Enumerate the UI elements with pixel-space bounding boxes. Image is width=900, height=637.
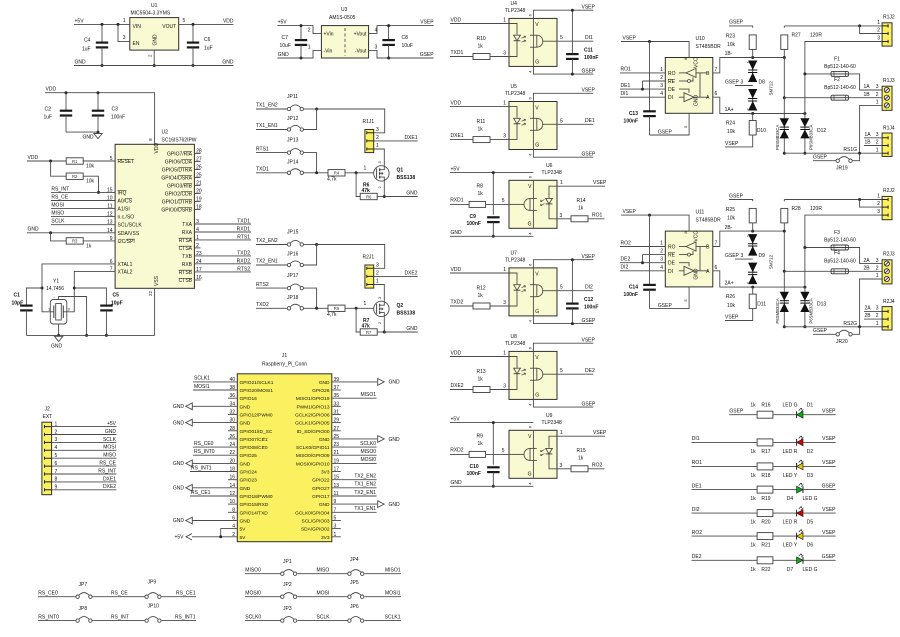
capacitor C3 100nF [97, 93, 99, 111]
svg-text:TX2_EN2: TX2_EN2 [256, 238, 278, 244]
svg-text:GPIO24: GPIO24 [240, 470, 258, 476]
svg-text:GSEP: GSEP [729, 193, 744, 199]
svg-text:DI1: DI1 [585, 35, 593, 41]
wire MISO to U2 n.c./SO [51, 216, 115, 218]
svg-text:R24: R24 [726, 121, 735, 127]
svg-text:P6SMB33CA: P6SMB33CA [809, 125, 814, 150]
svg-text:GSEP: GSEP [582, 68, 597, 74]
wire J2 pin 4 MOSI [45, 449, 52, 452]
svg-text:GND: GND [240, 519, 251, 525]
wire R1J1 pin 2 DXE1 [374, 140, 418, 142]
svg-text:VDD: VDD [451, 101, 462, 107]
svg-text:JP8: JP8 [79, 606, 88, 612]
svg-text:14,7456: 14,7456 [46, 286, 64, 292]
svg-text:GSEP: GSEP [725, 253, 740, 259]
svg-text:D4: D4 [787, 496, 794, 502]
svg-text:3V3: 3V3 [321, 535, 330, 541]
svg-text:10uF: 10uF [402, 43, 413, 49]
wire U1 VOUT to VDD [179, 23, 234, 25]
svg-text:10k: 10k [727, 216, 736, 222]
svg-text:U10: U10 [696, 36, 705, 42]
svg-text:RXB: RXB [182, 262, 193, 268]
svg-text:R7: R7 [366, 330, 372, 335]
svg-text:2A: 2A [865, 306, 872, 312]
svg-text:1uF: 1uF [82, 47, 91, 53]
TVS diode D9 SM712 [752, 234, 754, 256]
svg-text:DI1: DI1 [692, 436, 700, 442]
svg-text:R26: R26 [726, 294, 735, 300]
svg-text:RO2: RO2 [621, 240, 632, 246]
wire VSEP to U11 VCC [621, 215, 689, 231]
svg-text:5: 5 [560, 368, 563, 374]
svg-text:R22: R22 [761, 567, 770, 573]
wire DI2 LED row [692, 512, 758, 514]
wire TX1_EN1 J1 pin 7 [332, 511, 377, 513]
svg-text:5: 5 [502, 198, 505, 204]
svg-text:GND: GND [173, 486, 185, 492]
svg-text:DXE2: DXE2 [103, 484, 116, 490]
capacitor C1 10pF [26, 288, 42, 306]
connector J1 Raspberry_Pi_Conn [237, 374, 331, 542]
svg-text:R12: R12 [477, 286, 486, 292]
svg-text:7: 7 [715, 241, 718, 247]
LED D7 LED G [797, 557, 803, 564]
svg-text:CTSB: CTSB [179, 278, 193, 284]
svg-text:RXD1: RXD1 [450, 197, 464, 203]
resistor R9 1k input [450, 453, 469, 455]
svg-text:GND: GND [173, 404, 185, 410]
wire termination to R2J2 pins 1 2 [784, 199, 882, 201]
svg-text:I2C/SPI: I2C/SPI [118, 239, 135, 245]
wire VDD rail to U2 [45, 93, 155, 145]
svg-text:RO1: RO1 [592, 213, 603, 219]
ground arrow J1 pin 20 [192, 462, 237, 464]
transistor Q2 BSS138 [374, 301, 389, 316]
RS-485 transceiver U11 ST485BDR [665, 231, 713, 287]
svg-text:3: 3 [741, 253, 744, 259]
svg-text:5V: 5V [240, 535, 247, 541]
wire Q1 source to GND [383, 181, 385, 197]
wire crystal case pin 2 to ground [59, 297, 87, 336]
svg-text:SCLK0: SCLK0 [245, 614, 261, 620]
svg-text:RS_INT0: RS_INT0 [194, 449, 215, 455]
svg-text:10pF: 10pF [12, 301, 24, 307]
svg-text:10k: 10k [727, 129, 736, 135]
svg-text:18: 18 [196, 205, 202, 211]
resistor R16 1k [757, 411, 773, 418]
svg-text:GND: GND [694, 268, 700, 280]
svg-text:RO1: RO1 [692, 460, 703, 466]
resistor R1 10k [27, 160, 67, 162]
svg-text:D12: D12 [817, 128, 826, 134]
wire J2 pin 8 DXE1 [45, 480, 52, 483]
resistor R10 1k [450, 56, 473, 58]
svg-text:JP9: JP9 [148, 580, 157, 586]
svg-text:100nF: 100nF [111, 115, 125, 121]
svg-text:3: 3 [55, 437, 58, 443]
svg-text:GPIO2/CDB: GPIO2/CDB [165, 192, 193, 198]
jumpers JP3 JP6 SCLK [245, 620, 281, 622]
svg-text:3V3: 3V3 [321, 470, 330, 476]
wire U1 GND pin 2 [153, 50, 155, 65]
svg-text:GND: GND [406, 190, 418, 196]
wire U11 A pin 6 to 2A+ [713, 271, 805, 287]
wire RS1G net [784, 152, 882, 154]
svg-text:C1: C1 [14, 293, 21, 299]
wire RS2G net [784, 326, 882, 328]
wire J2 pin 5 MISO [45, 457, 52, 460]
svg-text:+Vout: +Vout [354, 32, 368, 38]
svg-text:R28: R28 [792, 206, 801, 212]
svg-text:1: 1 [876, 321, 879, 327]
svg-text:LED Y: LED Y [783, 543, 798, 549]
svg-text:VDD: VDD [154, 143, 160, 154]
svg-text:5: 5 [560, 285, 563, 291]
svg-text:+5V: +5V [451, 167, 461, 173]
wire MISO1 J1 pin 35 [332, 397, 377, 399]
svg-text:1k: 1k [478, 44, 484, 50]
ground symbol crystal [54, 336, 62, 341]
resistor R26 10k pulldown [752, 287, 754, 294]
wire XTAL1 node A [42, 264, 115, 312]
svg-text:GPIO08/CE0: GPIO08/CE0 [240, 445, 268, 451]
wire RS_CE0 to J1 pin 24 [193, 446, 237, 448]
svg-text:RS_INT0: RS_INT0 [38, 614, 59, 620]
wire TX2_EN2 J1 pin 15 [332, 479, 377, 481]
wire C2 C3 ground join [66, 131, 98, 133]
svg-text:SDA/VSS: SDA/VSS [118, 231, 140, 237]
svg-text:GPIO26: GPIO26 [312, 388, 330, 394]
TVS diode D8 SM712 [752, 61, 754, 83]
wire VSEP rail U7 [533, 260, 593, 268]
svg-text:SCLK: SCLK [103, 437, 117, 443]
wire R2J2 pin 3 to 2A+ [805, 215, 882, 287]
svg-text:DE: DE [668, 87, 676, 93]
svg-text:TXD2: TXD2 [237, 251, 250, 257]
wire MOSI to U2 A1/SI [51, 208, 115, 210]
svg-text:2: 2 [660, 249, 663, 255]
svg-text:1uF: 1uF [44, 115, 53, 121]
svg-text:22: 22 [148, 290, 153, 296]
svg-text:1k: 1k [86, 243, 92, 249]
fuse F2 Bp512-140-60 [783, 58, 785, 98]
svg-text:Y1: Y1 [53, 279, 59, 285]
svg-text:VSEP: VSEP [593, 430, 607, 436]
wire DI1 to U10 DI pin 4 [620, 96, 665, 98]
svg-text:6: 6 [715, 91, 718, 97]
svg-text:TLP2348: TLP2348 [505, 341, 526, 347]
LED D3 LED Y [797, 463, 803, 470]
svg-text:GPIO18/PWM0: GPIO18/PWM0 [240, 494, 273, 500]
svg-text:3: 3 [741, 80, 744, 86]
svg-text:RXD1: RXD1 [237, 227, 251, 233]
U2 UART output net wires [194, 223, 251, 225]
svg-text:1k: 1k [750, 567, 756, 573]
svg-text:DI: DI [668, 95, 673, 101]
svg-text:GPIO7/RIA: GPIO7/RIA [167, 152, 193, 158]
svg-text:DE2: DE2 [692, 554, 702, 560]
wire GND to U3 -Vin [277, 50, 321, 58]
svg-text:100nF: 100nF [624, 292, 638, 298]
svg-text:1A: 1A [865, 132, 872, 138]
ground arrow J1 pin 30 [192, 422, 237, 424]
svg-text:MOSI0: MOSI0 [245, 591, 261, 597]
jumper JP13 RTS1 [256, 152, 287, 154]
svg-text:Bp512-140-60: Bp512-140-60 [824, 85, 856, 91]
svg-text:GPIO17: GPIO17 [312, 494, 330, 500]
svg-text:RTS1: RTS1 [256, 146, 269, 152]
capacitor C4 1uF [101, 24, 103, 42]
stub J1 pin 36 [228, 397, 237, 399]
optocoupler U8 TLP2348 [509, 351, 557, 399]
svg-text:CTSA: CTSA [179, 246, 193, 252]
svg-text:GND: GND [240, 486, 251, 492]
svg-text:4,7k: 4,7k [327, 176, 337, 182]
svg-text:Raspberry_Pi_Conn: Raspberry_Pi_Conn [262, 362, 307, 368]
svg-text:GPIO15/RXD: GPIO15/RXD [240, 502, 269, 508]
svg-text:R16: R16 [761, 402, 770, 408]
ground symbol for C2 C3 [94, 134, 102, 139]
svg-text:TLP2348: TLP2348 [505, 257, 526, 263]
svg-text:RS_CE1: RS_CE1 [191, 490, 211, 496]
svg-text:4: 4 [55, 445, 58, 451]
svg-text:R13: R13 [477, 369, 486, 375]
wire U3 -Vout to GSEP [369, 50, 434, 58]
wire R2J3 pin 1 to RS2G [860, 279, 883, 327]
wire output DE2 [557, 373, 593, 375]
svg-text:2: 2 [55, 429, 58, 435]
svg-text:C8: C8 [402, 35, 409, 41]
svg-text:C6: C6 [204, 37, 211, 43]
svg-text:DXE2: DXE2 [404, 270, 417, 276]
connector J2 EXT [42, 422, 52, 495]
svg-text:2B: 2B [865, 313, 872, 319]
svg-text:DXE2: DXE2 [451, 383, 464, 389]
svg-text:120R: 120R [810, 33, 822, 39]
wire GSEP rail U8 [533, 399, 593, 407]
svg-text:VSEP: VSEP [822, 460, 836, 466]
svg-text:GSEP: GSEP [582, 151, 597, 157]
svg-text:MISO: MISO [317, 568, 330, 574]
svg-text:4: 4 [375, 28, 378, 34]
jumper JP15 TX2_EN2 [256, 244, 287, 246]
stub J1 pin 29 [332, 422, 341, 424]
svg-text:D13: D13 [817, 302, 826, 308]
svg-text:RS_CE0: RS_CE0 [194, 441, 214, 447]
stub J1 pin 17 [332, 471, 341, 473]
stub 2A R2J4 pin 3 [864, 310, 882, 312]
svg-text:R2J4: R2J4 [883, 299, 895, 305]
svg-text:SM712: SM712 [769, 81, 774, 96]
svg-text:2: 2 [876, 313, 879, 319]
svg-text:DE1: DE1 [621, 83, 631, 89]
voltage regulator U1 MIC5504-3.3YMS [130, 18, 179, 51]
svg-text:10k: 10k [86, 179, 95, 185]
svg-text:R27: R27 [792, 33, 801, 39]
wire termination to R1J2 pins 1 2 [784, 25, 882, 27]
svg-text:1k: 1k [478, 377, 484, 383]
svg-text:TX1_EN1: TX1_EN1 [256, 123, 278, 129]
svg-text:TLP2348: TLP2348 [505, 8, 526, 14]
svg-text:GND: GND [319, 502, 330, 508]
jumper JR20 to GSEP [852, 327, 859, 335]
svg-text:VDD: VDD [451, 350, 462, 356]
svg-text:R2J1: R2J1 [363, 255, 375, 261]
svg-text:GSEP: GSEP [813, 155, 828, 161]
svg-text:RO2: RO2 [692, 530, 703, 536]
svg-text:JP10: JP10 [148, 604, 160, 610]
svg-text:R10: R10 [477, 36, 486, 42]
svg-text:3: 3 [877, 209, 880, 215]
svg-text:SCLK1: SCLK1 [194, 376, 210, 382]
svg-text:SCLK1: SCLK1 [385, 614, 401, 620]
svg-text:MOSI: MOSI [317, 591, 330, 597]
stub J1 pin 32 [228, 414, 237, 416]
svg-text:8: 8 [55, 477, 58, 483]
resistor R3 1k [51, 233, 67, 241]
optocoupler U6 TLP2348 [509, 180, 557, 228]
svg-text:RTSA: RTSA [179, 238, 193, 244]
resistor R15 1k output [557, 468, 571, 470]
svg-text:LED G: LED G [802, 567, 817, 573]
svg-text:3: 3 [660, 257, 663, 263]
wire GND rail [74, 65, 234, 67]
optocoupler U7 TLP2348 [509, 268, 557, 316]
svg-text:C14: C14 [629, 284, 638, 290]
svg-text:1B: 1B [865, 140, 872, 146]
svg-text:GND: GND [152, 34, 158, 46]
svg-text:JR20: JR20 [836, 339, 848, 345]
svg-text:GSEP: GSEP [813, 328, 828, 334]
svg-text:1: 1 [503, 101, 506, 107]
svg-text:47k: 47k [362, 188, 371, 194]
wire TX1_EN2 J1 pin 13 [332, 487, 377, 489]
svg-text:1A: 1A [864, 84, 871, 90]
svg-text:JP6: JP6 [350, 604, 359, 610]
svg-text:MISO1: MISO1 [360, 392, 376, 398]
svg-text:R23: R23 [726, 33, 735, 39]
svg-text:3: 3 [503, 51, 506, 57]
svg-text:DI2: DI2 [692, 507, 700, 513]
wire U3 +Vout to VSEP [369, 26, 434, 34]
wire J2 pin 7 RS_INT [45, 472, 52, 475]
svg-text:DXE1: DXE1 [451, 133, 464, 139]
svg-text:4,7k: 4,7k [327, 312, 337, 318]
svg-text:TXA: TXA [182, 222, 192, 228]
svg-text:TXD2: TXD2 [451, 299, 464, 305]
capacitor C5 10pF [74, 288, 106, 306]
svg-text:RXD2: RXD2 [237, 259, 251, 265]
svg-text:GSEP: GSEP [582, 401, 597, 407]
wire enable net to R2J1 pin 3 [317, 245, 385, 269]
svg-text:26: 26 [196, 165, 202, 171]
svg-text:TXD1: TXD1 [237, 219, 250, 225]
wire DI1 LED row [692, 441, 758, 443]
svg-text:GSEP: GSEP [658, 129, 673, 135]
svg-text:XTAL1: XTAL1 [118, 262, 133, 268]
svg-text:C10: C10 [470, 464, 479, 470]
wire U11 B pin 7 to 2B- [713, 231, 785, 246]
wire U10 B pin 7 to 1B- [713, 58, 785, 73]
svg-text:1: 1 [503, 18, 506, 24]
svg-text:F3: F3 [834, 230, 840, 236]
svg-text:R1J4: R1J4 [883, 125, 895, 131]
svg-text:1k: 1k [578, 206, 584, 212]
svg-text:GND: GND [451, 480, 463, 486]
svg-text:RXD2: RXD2 [450, 447, 464, 453]
connector R1J1 [365, 130, 374, 153]
svg-text:1k: 1k [750, 496, 756, 502]
svg-text:2: 2 [308, 28, 311, 34]
capacitor C6 1uF [192, 24, 194, 42]
svg-text:GPIO5/DTRA: GPIO5/DTRA [162, 168, 193, 174]
svg-text:VSEP: VSEP [822, 436, 836, 442]
svg-text:TX1_EN2: TX1_EN2 [256, 103, 278, 109]
svg-text:MOSI0: MOSI0 [360, 457, 376, 463]
capacitor C11 100nF [571, 10, 573, 54]
svg-text:GCLK2/GPIO06: GCLK2/GPIO06 [295, 413, 330, 419]
svg-text:R2: R2 [72, 174, 78, 179]
resistor R23 10k pullup [729, 26, 753, 28]
svg-text:VSEP: VSEP [582, 4, 596, 10]
svg-text:TX2_EN1: TX2_EN1 [354, 490, 376, 496]
svg-text:U7: U7 [511, 250, 518, 256]
wire enable net to R1J1 pin 3 [317, 109, 385, 133]
wire J2 pin 9 DXE2 [45, 488, 52, 491]
svg-text:A0/CS: A0/CS [118, 199, 133, 205]
svg-text:GND: GND [278, 52, 290, 58]
svg-text:2: 2 [877, 201, 880, 207]
svg-text:GSEP: GSEP [729, 409, 744, 415]
wire VSEP output pin1 U9 [557, 435, 605, 437]
svg-text:RTS2: RTS2 [237, 267, 250, 273]
svg-text:RS_CE1: RS_CE1 [176, 591, 196, 597]
svg-text:1: 1 [503, 267, 506, 273]
stub 2B R2J4 pin 2 [864, 318, 882, 320]
svg-text:VSEP: VSEP [593, 180, 607, 186]
svg-text:JP14: JP14 [287, 159, 299, 165]
svg-text:PWM1/GPIO13: PWM1/GPIO13 [296, 404, 329, 410]
svg-text:-Vout: -Vout [355, 48, 367, 54]
svg-text:1: 1 [660, 241, 663, 247]
svg-text:Q1: Q1 [397, 168, 404, 174]
svg-text:MISO: MISO [51, 211, 64, 217]
svg-text:RXA: RXA [182, 230, 193, 236]
svg-text:28: 28 [196, 149, 202, 155]
svg-text:RS_CE: RS_CE [51, 194, 68, 200]
svg-text:GPIO0/DSRB: GPIO0/DSRB [161, 208, 192, 214]
svg-text:5V: 5V [240, 527, 247, 533]
svg-text:JP3: JP3 [283, 606, 292, 612]
svg-text:A1/SI: A1/SI [118, 207, 130, 213]
svg-text:GPIO6/CDA: GPIO6/CDA [165, 160, 193, 166]
wire GSEP U11 GND pin 5 [650, 287, 690, 309]
wire VDD input U4 [450, 23, 509, 25]
TVS diode D12 P6SMB33CA [804, 114, 806, 119]
svg-text:RS_CE0: RS_CE0 [38, 591, 58, 597]
svg-text:5: 5 [502, 448, 505, 454]
svg-text:MOSI0/GPIO10: MOSI0/GPIO10 [296, 461, 330, 467]
connector R2J4 [882, 307, 892, 330]
svg-text:BSS138: BSS138 [397, 175, 416, 181]
svg-text:1B: 1B [864, 92, 871, 98]
svg-text:100nF: 100nF [624, 118, 638, 124]
svg-text:2B: 2B [864, 266, 871, 272]
svg-text:RO2: RO2 [592, 463, 603, 469]
svg-text:GND: GND [105, 429, 117, 435]
capacitor C2 1uF [65, 93, 67, 111]
svg-text:GND: GND [240, 421, 251, 427]
